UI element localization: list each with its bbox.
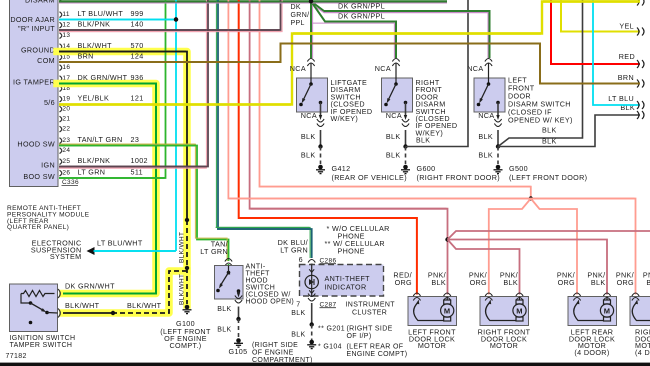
dashed BLK to ground xyxy=(497,147,499,165)
svg-text:M: M xyxy=(604,307,611,316)
text LEFT FRONT DOOR DISARM SWITCH (CLOSED IF OPENED W/ KEY) xyxy=(508,76,573,125)
svg-text:DOOR AJAR: DOOR AJAR xyxy=(10,15,55,24)
svg-text:26: 26 xyxy=(62,169,70,176)
svg-text:QUARTER PANEL): QUARTER PANEL) xyxy=(7,224,69,231)
svg-text:NCA: NCA xyxy=(290,64,306,73)
svg-text:COMPT.): COMPT.) xyxy=(170,341,202,350)
svg-text:BLK/WHT: BLK/WHT xyxy=(179,232,186,263)
highlight band for DK GRN/WHT 936 circuit xyxy=(57,84,156,294)
wire name and circuit number labels for module pins xyxy=(78,9,148,177)
text cellular phone notes xyxy=(325,224,390,256)
wire RED from top edge to right edge connector xyxy=(551,0,640,64)
svg-text:SYSTEM: SYSTEM xyxy=(50,252,82,261)
wire BLK below hood switch xyxy=(238,307,240,320)
svg-text:TAN/LT GRN: TAN/LT GRN xyxy=(78,135,123,144)
svg-text:INSTRUMENT: INSTRUMENT xyxy=(346,302,396,309)
svg-text:20: 20 xyxy=(62,105,70,112)
wire DK GRN/PPL pin 10 main run xyxy=(59,0,447,2)
svg-text:ORG: ORG xyxy=(617,278,634,287)
svg-text:OPENED W/ KEY): OPENED W/ KEY) xyxy=(508,116,573,125)
wire overpaint LT BLU/WHT pin 11 horizontal xyxy=(59,19,176,21)
svg-text:OF I/P): OF I/P) xyxy=(347,333,372,340)
svg-text:BLK: BLK xyxy=(217,327,231,334)
svg-text:THEFT: THEFT xyxy=(246,271,271,278)
connector C287 below indicator xyxy=(308,294,315,302)
svg-text:BLK: BLK xyxy=(217,306,231,313)
wire overpaint BRN 124 horizontal runs xyxy=(59,61,280,63)
wire overpaint YEL/BLK horizontal runs xyxy=(59,103,291,105)
wire BLK from right front door switch junction up off page xyxy=(406,0,469,147)
svg-text:(REAR OF VEHICLE): (REAR OF VEHICLE) xyxy=(332,173,407,182)
svg-text:BLK/WHT: BLK/WHT xyxy=(127,301,162,310)
wire LT GRN 511 pin 26 up to top edge xyxy=(59,0,166,178)
connector BRN right edge xyxy=(637,80,644,88)
svg-text:511: 511 xyxy=(131,167,144,176)
ground G500 xyxy=(494,165,503,174)
wire PNK/ORG branch to right front door lock motor xyxy=(489,199,531,295)
junction dot BLK/WHT at 113,313 xyxy=(111,311,115,315)
svg-text:BLK: BLK xyxy=(291,310,305,317)
motor M symbol xyxy=(519,297,521,301)
svg-text:23: 23 xyxy=(131,135,140,144)
junction dot on BLK xyxy=(403,144,407,148)
svg-text:21: 21 xyxy=(62,115,70,122)
wire DK GRN/PPL branch 2 to right front door disarm switch xyxy=(311,1,396,58)
svg-text:BLK: BLK xyxy=(416,138,430,145)
ground G104 xyxy=(307,340,316,349)
svg-text:DK GRN/WHT: DK GRN/WHT xyxy=(78,73,128,82)
wire BLK from left front door switch to right edge connector xyxy=(498,115,640,147)
wire LT BLU/WHT to electronic suspension system arrow xyxy=(94,250,177,252)
svg-text:BLK: BLK xyxy=(291,332,305,339)
dashed BLK to ground xyxy=(320,147,322,165)
pin bracket BLK/WHT on ignition switch xyxy=(58,309,60,318)
wire BRN 124 pin 15 to right edge connector xyxy=(59,44,640,84)
label G500 and location xyxy=(509,164,587,182)
svg-text:(RIGHT SIDE: (RIGHT SIDE xyxy=(252,342,298,349)
ignition switch tamper switch box xyxy=(10,284,58,332)
wire overpaint TAN/LT GRN horizontal xyxy=(59,145,196,147)
svg-text:* G104: * G104 xyxy=(318,344,342,351)
module pin brackets and numbers, connector C336 xyxy=(60,0,79,186)
svg-text:(4 DOOR): (4 DOOR) xyxy=(635,348,650,357)
svg-text:DK GRN/WHT: DK GRN/WHT xyxy=(65,282,115,291)
svg-text:ANTI-: ANTI- xyxy=(246,264,266,271)
svg-text:NCA: NCA xyxy=(301,111,317,120)
connector NCA below switch xyxy=(494,119,501,127)
wire overpaint RED/ORG horizontal xyxy=(240,217,416,219)
svg-text:NCA: NCA xyxy=(386,111,402,120)
svg-text:12: 12 xyxy=(62,21,70,28)
svg-text:13: 13 xyxy=(62,32,70,39)
wire PNK/BLK branch to right front door lock motor xyxy=(448,240,520,295)
svg-text:M: M xyxy=(444,307,451,316)
svg-text:W/KEY): W/KEY) xyxy=(331,114,359,123)
disarm switch box LIFTGATE xyxy=(297,78,328,112)
svg-text:25: 25 xyxy=(62,158,70,165)
switch contacts and blade xyxy=(310,63,312,84)
connector YEL top right corner xyxy=(637,0,644,6)
svg-text:** G201: ** G201 xyxy=(318,326,345,333)
module left pin-function labels xyxy=(10,0,55,181)
svg-text:IGN: IGN xyxy=(41,161,55,170)
text ignition switch tamper switch xyxy=(10,335,76,349)
svg-text:(LEFT FRONT DOOR): (LEFT FRONT DOOR) xyxy=(509,173,587,182)
text RIGHT FRONT DOOR LOCK MOTOR xyxy=(478,328,531,351)
svg-text:BOO SW: BOO SW xyxy=(23,172,55,181)
wire BLK/PNK 140 pin 12 xyxy=(59,0,281,30)
disarm switch box LEFT xyxy=(474,78,505,112)
wire RED/ORG from top edge to left front door lock motor xyxy=(239,0,417,295)
svg-text:22: 22 xyxy=(62,125,70,132)
svg-text:19: 19 xyxy=(62,95,70,102)
svg-text:BLK: BLK xyxy=(301,132,316,141)
svg-text:936: 936 xyxy=(131,73,144,82)
wire BLK from left front door switch to top edge via diagonal xyxy=(498,0,583,147)
svg-text:HOOD SW: HOOD SW xyxy=(17,140,55,149)
svg-text:BLK: BLK xyxy=(301,151,316,160)
label G600 and location xyxy=(417,164,501,182)
svg-text:TAMPER SWITCH: TAMPER SWITCH xyxy=(10,342,73,349)
wire from switch to below connector xyxy=(405,103,407,117)
junction dot LT BLU/WHT repaint xyxy=(174,17,178,21)
ground G105 xyxy=(234,338,243,347)
connector RED right edge xyxy=(637,60,644,68)
svg-text:23: 23 xyxy=(62,137,70,144)
wire from switch to below connector xyxy=(320,103,322,117)
svg-text:(CLOSED W/: (CLOSED W/ xyxy=(246,292,291,299)
door lock motor box LEFT REAR DOOR LOCK xyxy=(568,297,617,326)
door lock motor box LEFT FRONT DOOR LOCK xyxy=(408,297,457,326)
text anti-theft hood switch xyxy=(246,264,295,306)
svg-text:BLK/WHT: BLK/WHT xyxy=(65,301,100,310)
wire BLK below switch xyxy=(497,130,499,147)
svg-text:LT BLU: LT BLU xyxy=(608,94,634,103)
wire DK GRN/WHT 936 green core pin 17 to ignition switch tamper switch xyxy=(59,84,156,294)
wire BLK below indicator xyxy=(311,303,313,325)
svg-text:ORG: ORG xyxy=(395,278,412,287)
svg-text:BLK: BLK xyxy=(646,278,650,287)
text anti-theft indicator xyxy=(325,274,371,292)
svg-text:M: M xyxy=(516,307,523,316)
wire overpaint PNK/ORG bus lower horizontal xyxy=(229,198,634,200)
svg-text:C336: C336 xyxy=(62,179,79,186)
junction dot G201 xyxy=(310,322,314,326)
svg-text:HOOD: HOOD xyxy=(246,278,268,285)
svg-text:999: 999 xyxy=(131,9,144,18)
svg-text:ORG: ORG xyxy=(470,278,487,287)
wire overpaint DK GRN/WHT horizontal core xyxy=(59,83,155,85)
junction dot LT BLU/WHT xyxy=(174,17,178,21)
arrow to electronic suspension system xyxy=(87,247,95,255)
svg-text:BLK: BLK xyxy=(478,151,493,160)
wire BLK/PNK 1002 pin 25 xyxy=(59,0,208,167)
connector NCA above switch xyxy=(307,59,314,67)
svg-text:LT BLU/WHT: LT BLU/WHT xyxy=(97,239,143,248)
svg-text:121: 121 xyxy=(131,93,144,102)
svg-text:GRN/: GRN/ xyxy=(291,12,310,19)
anti-theft indicator LED symbol xyxy=(305,265,318,297)
connector NCA below switch xyxy=(317,119,324,127)
door lock motor right rear box (clipped at right edge) xyxy=(630,297,650,326)
wire BLK/WHT solid into ignition switch tamper switch xyxy=(63,312,113,314)
wire BLK/WHT dashed branch to ignition switch tamper switch xyxy=(113,271,187,313)
svg-text:DK: DK xyxy=(291,4,301,11)
resistor inside ignition switch xyxy=(21,291,55,297)
svg-text:YEL: YEL xyxy=(619,21,634,30)
wire YEL from top edge to right edge connector xyxy=(561,0,640,32)
svg-text:16: 16 xyxy=(62,64,70,71)
module name text: remote anti-theft personality module (left rear quarter panel) xyxy=(7,205,90,231)
connector NCA above switch xyxy=(392,59,399,67)
wire PNK/BLK from top edge to left front door lock motor xyxy=(250,0,448,295)
svg-text:BLK: BLK xyxy=(431,278,446,287)
motor actuator arc symbol and internal wire to motor xyxy=(486,303,516,321)
svg-text:LT GRN: LT GRN xyxy=(78,167,106,176)
label TAN/LT GRN at hood switch xyxy=(200,240,228,257)
svg-text:IG TAMPER: IG TAMPER xyxy=(13,78,55,87)
connector below hood switch xyxy=(235,296,242,304)
junction dot PNK/ORG buses xyxy=(529,196,533,200)
svg-text:G600: G600 xyxy=(417,164,436,173)
motor pin connectors xyxy=(485,293,492,301)
junction dot BLK/WHT at 186,268 xyxy=(185,266,189,270)
wire overpaint BLK/PNK 140 horizontal xyxy=(59,29,280,31)
connector NCA below switch xyxy=(402,119,409,127)
wire PNK/BLK branch to left rear door lock motor xyxy=(448,240,608,295)
wire overpaint DK GRN/PPL main horizontal xyxy=(59,2,447,4)
svg-text:BRN: BRN xyxy=(618,73,634,82)
wire PNK/ORG bus upper from top edge xyxy=(260,0,531,199)
svg-text:BLK: BLK xyxy=(542,137,557,146)
wire overpaint PNK/ORG bus upper horizontal xyxy=(260,186,530,188)
wire overpaint LT GRN 511 horizontal xyxy=(59,177,165,179)
highlight band for BLK/WHT 570 circuit xyxy=(57,52,187,314)
wire into hood switch with connector xyxy=(225,259,232,267)
junction dot on BLK xyxy=(496,144,500,148)
text RIGHT FRONT DOOR DISARM SWITCH (CLOSED IF OPENED W/KEY) xyxy=(416,78,458,137)
wire overpaint BLK/PNK 1002 horizontal xyxy=(59,166,207,168)
label G412 and location xyxy=(332,164,407,182)
wire DK GRN/PPL branch 1 to left front door disarm switch xyxy=(311,1,490,58)
svg-text:7: 7 xyxy=(296,302,300,309)
svg-text:G500: G500 xyxy=(509,164,528,173)
svg-text:6: 6 xyxy=(299,255,303,264)
disarm switch box RIGHT xyxy=(382,78,413,112)
dashed BLK to G105 xyxy=(238,319,240,339)
svg-text:OF ENGINE: OF ENGINE xyxy=(252,350,294,357)
wire LT BLU/WHT vertical trunk xyxy=(175,0,177,251)
connector YEL right edge xyxy=(637,28,644,36)
motor pin connectors xyxy=(413,293,420,301)
svg-text:ENGINE COMPT): ENGINE COMPT) xyxy=(347,351,408,358)
text instrument cluster xyxy=(346,302,396,317)
wire BLK/WHT 570 solid core from pin 14 xyxy=(59,52,187,221)
motor actuator arc symbol and internal wire to motor xyxy=(414,303,444,321)
svg-text:COM: COM xyxy=(37,56,55,65)
svg-text:G412: G412 xyxy=(332,164,351,173)
svg-text:ORG: ORG xyxy=(558,278,575,287)
svg-text:BLK/PNK: BLK/PNK xyxy=(78,156,111,165)
svg-text:NCA: NCA xyxy=(478,111,494,120)
svg-text:77182: 77182 xyxy=(6,353,27,360)
junction dot PNK/BLK xyxy=(445,237,449,241)
wire BLK below switch xyxy=(320,130,322,147)
motor pin connectors xyxy=(573,293,580,301)
dashed BLK to ground xyxy=(405,147,407,165)
junction dot BLK/WHT at 186,220 xyxy=(185,218,189,222)
svg-text:IGNITION SWITCH: IGNITION SWITCH xyxy=(10,335,76,342)
svg-text:YEL/BLK: YEL/BLK xyxy=(78,93,110,102)
label DK GRN/PPL stacked at branch point xyxy=(291,4,310,27)
wire TAN/LT GRN 23 pin 23 to anti-theft hood switch xyxy=(59,146,229,262)
svg-text:1002: 1002 xyxy=(131,156,148,165)
svg-text:140: 140 xyxy=(131,19,144,28)
connector C286 into instrument cluster xyxy=(308,260,315,268)
svg-text:W/KEY): W/KEY) xyxy=(416,128,444,137)
svg-text:BLK/WHT: BLK/WHT xyxy=(78,41,113,50)
svg-text:PPL: PPL xyxy=(291,20,305,27)
svg-text:SWITCH: SWITCH xyxy=(246,285,276,292)
wire overpaint BLK/WHT 570 horizontal core xyxy=(59,51,186,53)
wire LT BLU/WHT 999 pin 11 to junction xyxy=(59,19,176,21)
text LEFT FRONT DOOR LOCK MOTOR xyxy=(408,328,456,351)
wire YEL/BLK 121 pin 19 to top right connector xyxy=(59,2,640,105)
ground G100 xyxy=(183,305,192,314)
label G100 and location xyxy=(160,319,211,350)
junction dot below hood switch xyxy=(236,317,240,321)
connector BLK right edge xyxy=(637,111,644,119)
wire overpaint LT BLU/WHT suspension horizontal xyxy=(94,250,176,252)
bottom page border bar xyxy=(0,363,650,366)
hood switch contacts and blade xyxy=(227,271,231,275)
text LEFT REAR DOOR LOCK MOTOR (4 DOOR) xyxy=(569,328,615,357)
connector NCA above switch xyxy=(485,59,492,67)
text right side of engine compartment xyxy=(252,342,313,364)
label G201 right side of I/P xyxy=(318,326,393,341)
wire overpaint DK GRN/PPL branch 1 horizontal xyxy=(324,10,490,12)
wire PNK/BLK branch to right rear motor off right edge xyxy=(448,231,650,240)
wire BLK/WHT dashed to G100 ground xyxy=(186,220,188,304)
door lock motor box RIGHT FRONT DOOR LOCK xyxy=(480,297,529,326)
wire overpaint PNK/BLK bus horizontal xyxy=(251,208,447,210)
svg-text:11: 11 xyxy=(62,11,69,18)
svg-text:(4 DOOR): (4 DOOR) xyxy=(574,348,609,357)
svg-text:BLK: BLK xyxy=(386,132,401,141)
junction dot DK GRN/PPL repaint xyxy=(309,0,313,4)
ignition switch internal wiring and contacts xyxy=(21,294,31,304)
switch contacts and blade xyxy=(488,63,490,84)
label G104 left rear of engine compt xyxy=(318,344,407,359)
svg-text:HOOD OPEN): HOOD OPEN) xyxy=(246,299,295,306)
svg-text:(RIGHT SIDE: (RIGHT SIDE xyxy=(347,326,393,333)
svg-text:RED: RED xyxy=(619,52,635,61)
svg-text:LT BLU/WHT: LT BLU/WHT xyxy=(78,9,124,18)
svg-text:NCA: NCA xyxy=(467,64,483,73)
svg-text:BRN: BRN xyxy=(78,51,94,60)
svg-text:BLK: BLK xyxy=(478,132,493,141)
label DK BLU/LT GRN pin 6 xyxy=(278,238,308,264)
svg-text:BLK: BLK xyxy=(386,151,401,160)
motor wire labels RED/ORG PNK/BLK etc xyxy=(393,271,650,288)
svg-text:G105: G105 xyxy=(229,347,248,356)
svg-text:GROUND: GROUND xyxy=(21,46,55,55)
text LIFTGATE DISARM SWITCH (CLOSED IF OPENED W/KEY) xyxy=(331,78,373,123)
svg-text:24: 24 xyxy=(62,147,70,154)
wire from hood switch lower contact xyxy=(238,291,240,293)
svg-text:BLK: BLK xyxy=(503,278,518,287)
svg-text:NCA: NCA xyxy=(375,64,391,73)
motor actuator arc symbol and internal wire to motor xyxy=(574,303,604,321)
wire PNK/ORG branch to left rear door lock motor xyxy=(531,199,577,295)
motor M symbol xyxy=(606,297,608,301)
svg-text:MOTOR: MOTOR xyxy=(490,341,518,350)
instrument cluster dashed box with anti-theft indicator xyxy=(300,265,384,297)
svg-text:124: 124 xyxy=(131,51,144,60)
anti-theft hood switch box xyxy=(215,266,244,300)
svg-text:570: 570 xyxy=(131,41,144,50)
svg-text:DISARM: DISARM xyxy=(25,0,55,5)
svg-text:LT GRN: LT GRN xyxy=(280,246,308,255)
wire PNK/ORG bus lower from top edge to right rear motor xyxy=(228,0,635,295)
junction dot DK GRN/PPL at liftgate branch xyxy=(309,0,313,4)
wire DK GRN/PPL drop to liftgate disarm switch xyxy=(310,1,312,58)
switch contacts and blade xyxy=(395,63,397,84)
wire BLK below switch xyxy=(405,130,407,147)
svg-text:INDICATOR: INDICATOR xyxy=(325,283,367,292)
svg-text:CLUSTER: CLUSTER xyxy=(352,310,387,317)
svg-text:5/6: 5/6 xyxy=(44,98,55,107)
svg-text:PHONE: PHONE xyxy=(338,247,365,256)
svg-text:"R" INPUT: "R" INPUT xyxy=(18,24,55,33)
wire from switch to below connector xyxy=(497,103,499,117)
connector LT BLU right edge xyxy=(637,101,644,109)
svg-text:(LEFT REAR OF: (LEFT REAR OF xyxy=(347,344,404,351)
svg-text:MOTOR: MOTOR xyxy=(418,341,446,350)
svg-text:(RIGHT FRONT DOOR): (RIGHT FRONT DOOR) xyxy=(417,173,501,182)
wire LT BLU from top edge to right edge connector xyxy=(593,0,640,105)
wire overpaint DK BLU/LT GRN horizontal xyxy=(217,228,311,230)
ground G412 xyxy=(316,165,325,174)
svg-text:LT GRN: LT GRN xyxy=(200,247,228,256)
remote anti-theft personality module box xyxy=(10,0,59,187)
text electronic suspension system xyxy=(31,239,82,262)
motor M symbol xyxy=(446,297,448,301)
svg-text:BLK: BLK xyxy=(591,278,606,287)
junction dot on BLK xyxy=(318,144,322,148)
wire DK BLU/LT GRN from top edge to anti-theft indicator xyxy=(218,0,312,258)
svg-text:BLK: BLK xyxy=(542,126,557,135)
svg-text:BLK/PNK: BLK/PNK xyxy=(78,19,111,28)
pin bracket DK GRN/WHT on ignition switch xyxy=(58,289,60,298)
svg-text:BLK/WHT: BLK/WHT xyxy=(179,274,186,305)
ground G600 xyxy=(401,165,410,174)
dashed BLK to G104 xyxy=(311,325,313,341)
